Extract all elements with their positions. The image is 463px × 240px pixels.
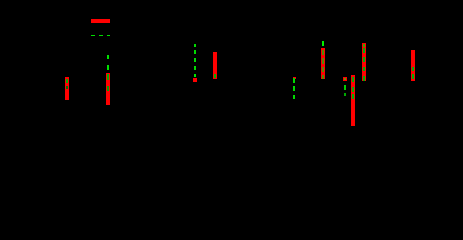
- green dashes on bar H: [352, 77, 354, 82]
- green dashes on bar B: [107, 74, 109, 80]
- green dashes below G: [344, 85, 346, 90]
- green dash at bottom of bar D: [214, 74, 216, 79]
- red bar I: [362, 43, 366, 82]
- green dashes on bar I: [363, 44, 365, 47]
- green dashed horizontal line (top left): [91, 35, 95, 37]
- olive dashes on bar F: [322, 50, 324, 55]
- olive center of dash G: [344, 78, 346, 81]
- green dashed line above bar B: [107, 55, 109, 59]
- red bar H: [351, 75, 355, 126]
- green dashed line E: [293, 78, 295, 82]
- red bar J: [411, 50, 415, 81]
- red node at bottom of line C: [193, 78, 198, 83]
- green dash above bar F: [322, 41, 324, 46]
- red horizontal bar (top left): [91, 19, 110, 23]
- red bar D: [213, 52, 217, 79]
- red dash G: [343, 77, 347, 81]
- red bar A: [65, 77, 68, 100]
- red bar B: [106, 73, 110, 106]
- green dashes on bar J: [412, 67, 414, 72]
- red bar F: [321, 48, 325, 79]
- green dashed line C: [194, 44, 196, 47]
- red cap E: [293, 77, 297, 79]
- green dashes on bar A: [66, 79, 68, 84]
